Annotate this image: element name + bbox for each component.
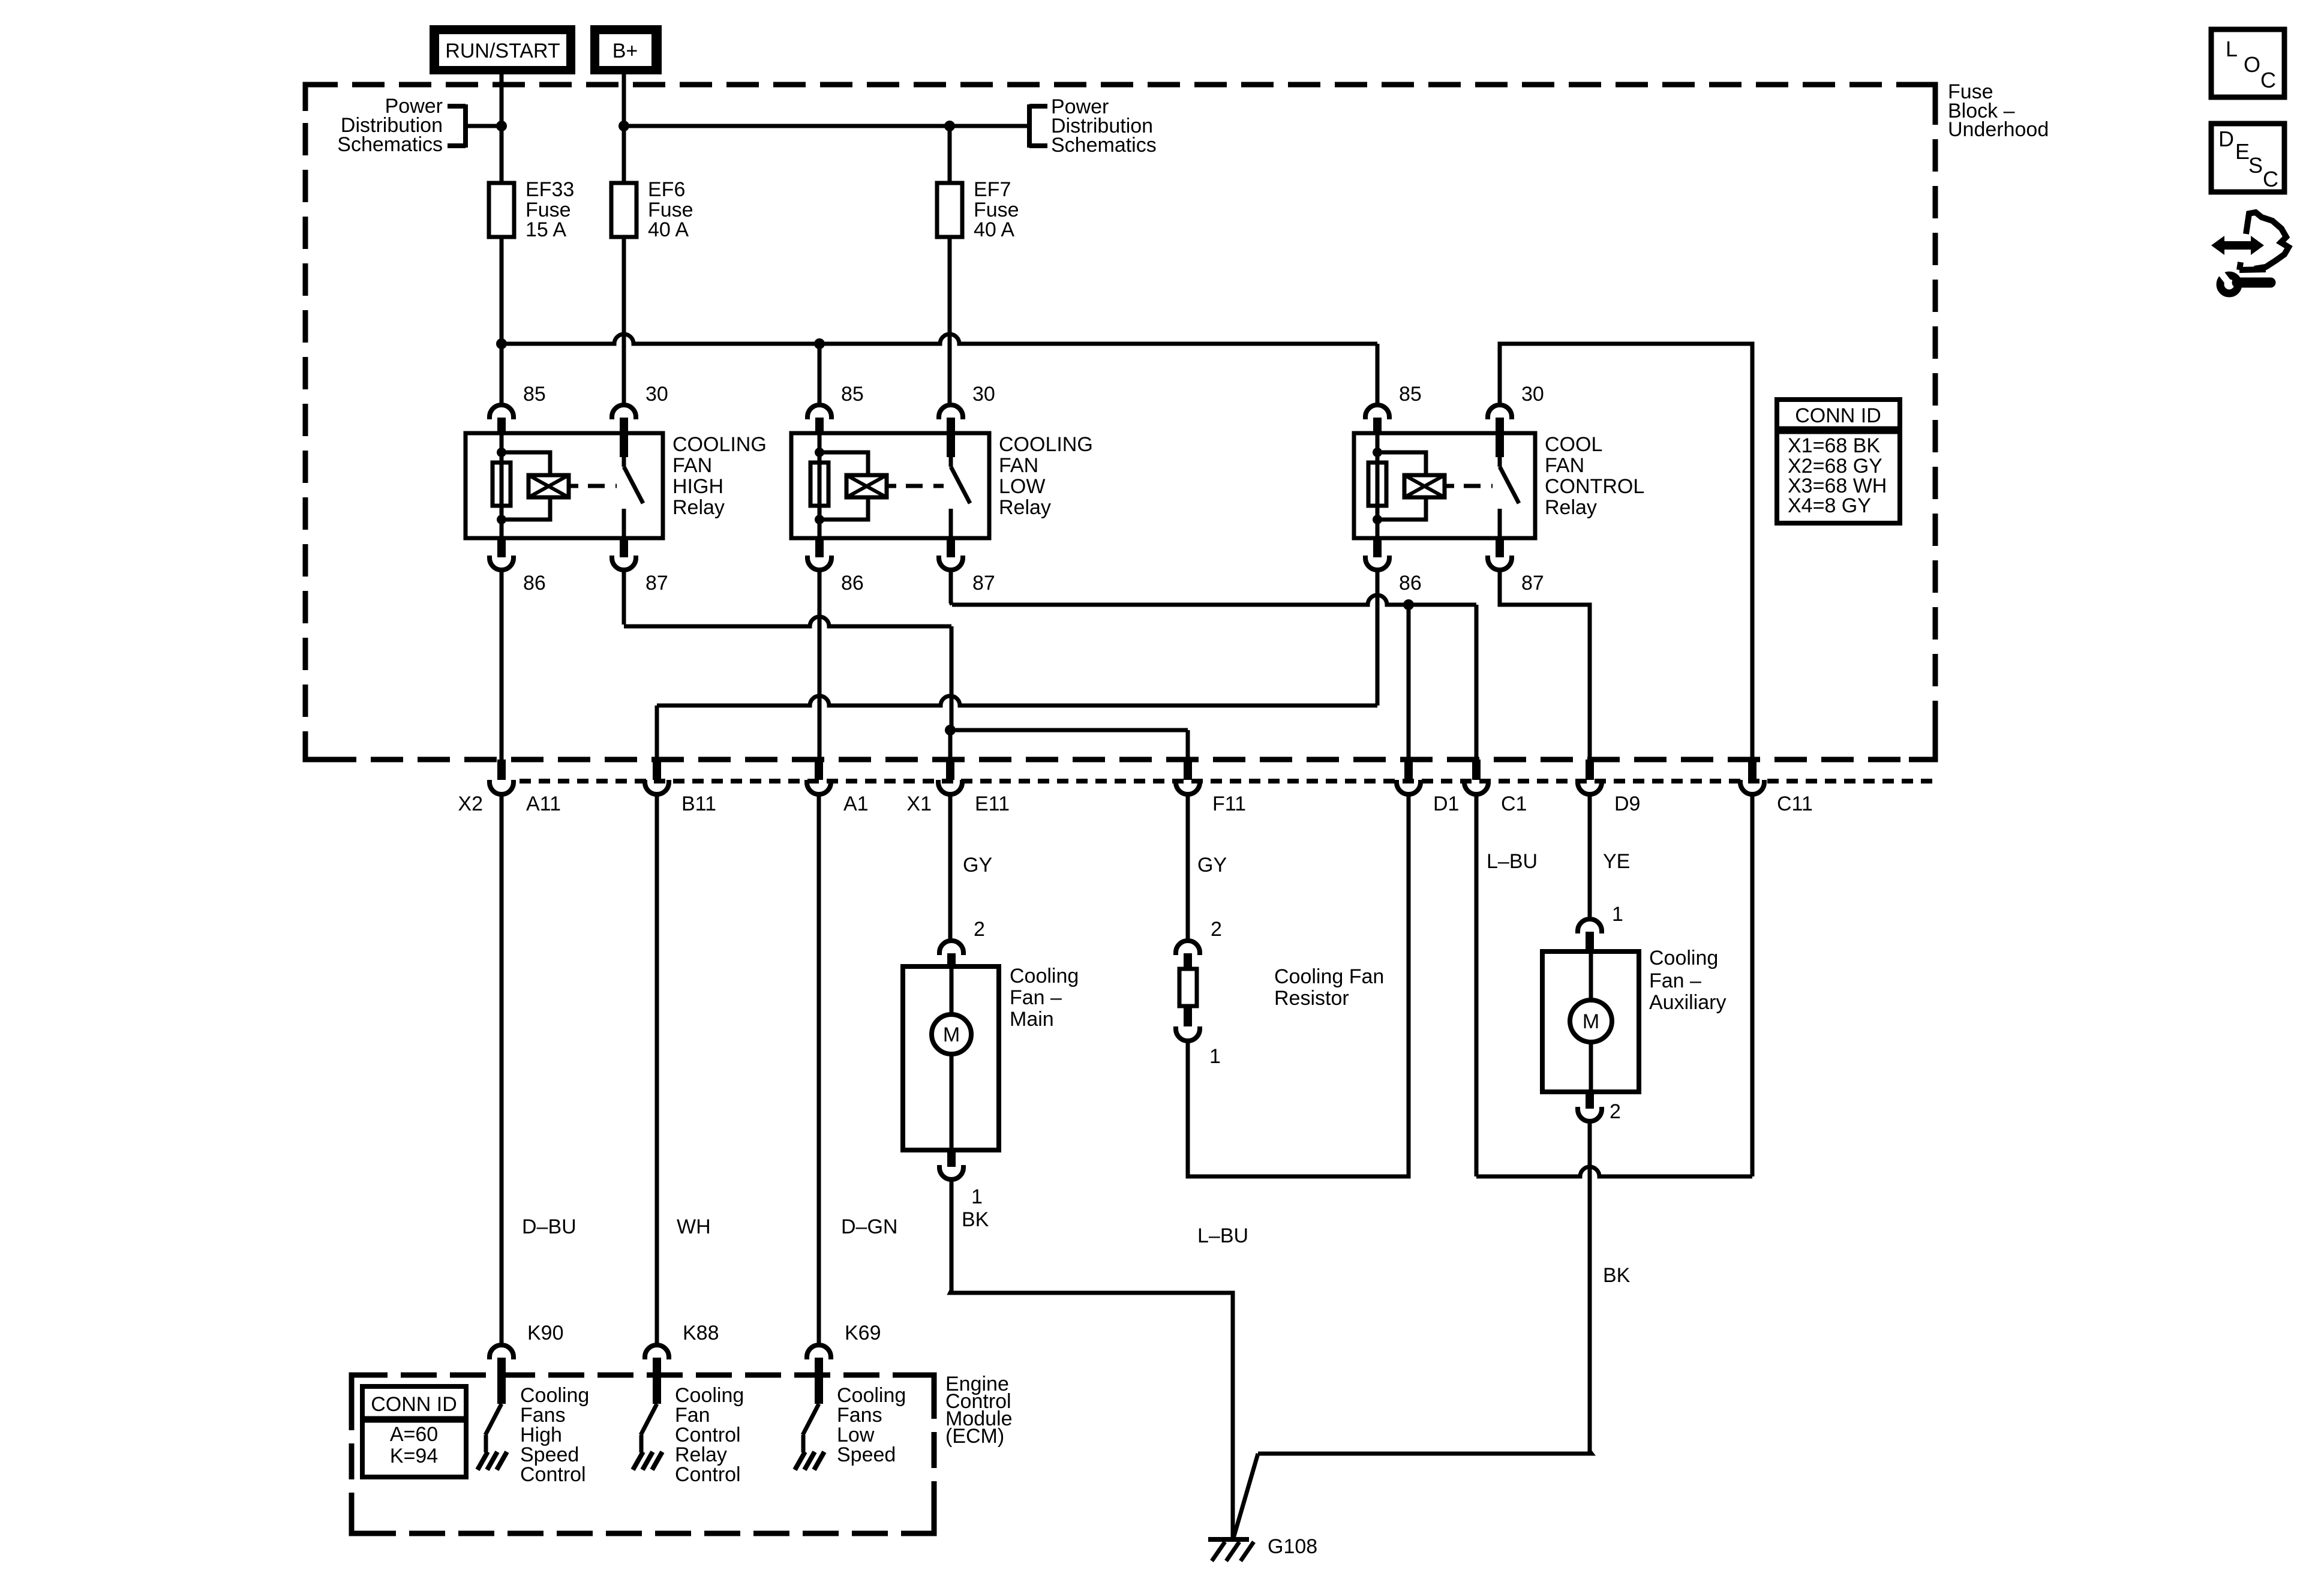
- svg-text:X4=8 GY: X4=8 GY: [1788, 494, 1871, 517]
- relay K2 COOLING FAN LOW - relay coil pin 85 connector: [807, 405, 831, 434]
- label: pin E11: [975, 792, 1010, 815]
- wire: relay K2 pin 86 to connector A1: [818, 571, 822, 760]
- ECM pin K90 connector: [490, 1345, 514, 1404]
- relay K3 COOL FAN CONTROL - label: COOL FAN CONTROL Relay: [1545, 433, 1644, 519]
- relay K2 COOLING FAN LOW - relay coil with resistor: [810, 433, 887, 538]
- cooling fan auxiliary pin 2 connector: [1578, 1092, 1602, 1121]
- fuse EF6: [611, 183, 636, 237]
- wire: resistor pin 1 loop to D1: [1188, 795, 1409, 1176]
- svg-text:K90: K90: [527, 1322, 564, 1344]
- svg-text:BK: BK: [1603, 1264, 1631, 1287]
- relay K3 COOL FAN CONTROL - relay switch pin 30 connector: [1488, 405, 1512, 434]
- icon service info (arrows, outline, wrench): [2211, 212, 2289, 293]
- connector X2/A11 at fuse block boundary: [490, 760, 514, 794]
- relay K1 COOLING FAN HIGH - label: terminal 87: [645, 572, 668, 595]
- cooling fan main pin 2 connector: [939, 941, 963, 968]
- power tag B+: [590, 25, 662, 74]
- svg-text:87: 87: [972, 572, 995, 595]
- label: Cooling Fan Control Relay Control: [675, 1384, 744, 1486]
- svg-text:CONTROL: CONTROL: [1545, 475, 1644, 498]
- svg-text:A1: A1: [843, 792, 869, 815]
- relay K2 COOLING FAN LOW - relay switch arm: [947, 434, 970, 538]
- svg-text:CONN ID: CONN ID: [371, 1393, 457, 1416]
- svg-text:2: 2: [974, 918, 985, 941]
- relay K2 COOLING FAN LOW - relay box: [791, 433, 989, 538]
- label: Fuse Block - Underhood: [1948, 80, 2049, 141]
- label: fan aux pin 2: [1610, 1100, 1621, 1123]
- cooling fan main motor: [903, 966, 999, 1150]
- label: Power Distribution Schematics (left): [337, 95, 443, 156]
- wire: relay K1 pin 87 across to E11 drop: [624, 571, 951, 730]
- svg-text:E11: E11: [975, 792, 1010, 815]
- label: pin D1: [1433, 792, 1459, 815]
- relay K1 COOLING FAN HIGH - relay linkage (dashed): [569, 484, 617, 488]
- svg-text:86: 86: [841, 572, 864, 595]
- relay K1 COOLING FAN HIGH - label: terminal 30: [645, 383, 668, 406]
- wire: F11 to resistor pin 2: [1186, 795, 1190, 940]
- connector D9 at fuse block boundary: [1578, 760, 1602, 794]
- label: pin C11: [1777, 792, 1813, 815]
- svg-text:(ECM): (ECM): [945, 1425, 1004, 1448]
- table: ECM CONN ID: [362, 1386, 466, 1477]
- wire: fan main ground path (BK): [950, 1180, 1233, 1539]
- svg-text:FAN: FAN: [999, 454, 1038, 477]
- relay K2 COOLING FAN LOW - relay coil pin 86 connector: [807, 538, 831, 570]
- relay K3 COOL FAN CONTROL - relay coil pin 85 connector: [1365, 405, 1389, 434]
- svg-text:Speed: Speed: [837, 1443, 896, 1466]
- label: pin F11: [1212, 792, 1246, 815]
- fuse EF7: [937, 183, 962, 237]
- wire: E11 to cooling fan main pin 2: [948, 795, 953, 940]
- wire: relay K3 pin 87 to connector D9: [1500, 571, 1590, 760]
- wire: B+ feed down to fuse EF6: [622, 74, 626, 183]
- wire: relay K1 pin 86 to connector A11: [500, 571, 504, 760]
- svg-text:EF33: EF33: [526, 178, 574, 201]
- label: pin C1: [1501, 792, 1527, 815]
- label: Cooling Fan Resistor: [1274, 965, 1384, 1010]
- svg-text:X1=68 BK: X1=68 BK: [1788, 434, 1880, 457]
- label: wire color D-BU: [522, 1215, 577, 1238]
- label: pin D9: [1614, 792, 1640, 815]
- svg-text:C: C: [2260, 68, 2276, 92]
- relay K1 COOLING FAN HIGH - label: terminal 86: [523, 572, 546, 595]
- relay K1 COOLING FAN HIGH - label: COOLING FAN HIGH Relay: [672, 433, 767, 519]
- relay K1 COOLING FAN HIGH - relay switch pin 87 connector: [612, 538, 636, 570]
- label: pin X2: [458, 792, 483, 815]
- svg-text:Cooling: Cooling: [1010, 965, 1079, 987]
- svg-text:Relay: Relay: [999, 496, 1051, 519]
- svg-text:A11: A11: [526, 792, 561, 815]
- label: wire color L-BU (C1): [1487, 850, 1538, 873]
- label: pin A1: [843, 792, 869, 815]
- svg-text:85: 85: [523, 383, 546, 406]
- label: wire color D-GN: [841, 1215, 897, 1238]
- wire: E11 drop to connector: [948, 730, 953, 760]
- wire: ignition bus to relay K3 pin 85: [502, 334, 1377, 406]
- wire: EF6 output to relay K1 pin 30: [622, 237, 626, 406]
- svg-text:GY: GY: [963, 854, 992, 876]
- label: Cooling Fan - Main: [1010, 965, 1079, 1031]
- label: pin X1: [906, 792, 932, 815]
- wire: relay K2 pin 87 across to C1 drop: [951, 571, 1476, 760]
- svg-text:WH: WH: [677, 1215, 711, 1238]
- wire: relay K3 pin 86 to connector B11: [657, 571, 1377, 760]
- svg-text:G108: G108: [1268, 1535, 1317, 1558]
- relay K2 COOLING FAN LOW - relay switch pin 30 connector: [939, 405, 963, 434]
- label: wire color BK (aux fan): [1603, 1264, 1631, 1287]
- label: pin K88: [683, 1322, 719, 1344]
- wire: A1 to ECM K69 (D-GN): [817, 795, 821, 1344]
- wire: D9 to cooling fan auxiliary pin 1: [1588, 795, 1592, 917]
- relay K1 COOLING FAN HIGH - relay switch arm: [620, 434, 643, 538]
- label: wire color GY (main fan): [963, 854, 992, 876]
- relay K2 COOLING FAN LOW - label: terminal 86: [841, 572, 864, 595]
- connector B11 at fuse block boundary: [645, 760, 669, 794]
- icon LOC: [2211, 29, 2284, 97]
- relay K3 COOL FAN CONTROL - relay box: [1354, 433, 1535, 538]
- label: wire color GY (resistor): [1197, 854, 1227, 876]
- svg-text:HIGH: HIGH: [672, 475, 723, 498]
- ECM driver switch at K88: [633, 1404, 662, 1470]
- svg-text:Cooling: Cooling: [1649, 947, 1718, 969]
- relay K3 COOL FAN CONTROL - label: terminal 30: [1521, 383, 1544, 406]
- svg-text:Fan –: Fan –: [1010, 986, 1062, 1009]
- label: resistor pin 2: [1211, 918, 1222, 941]
- wire: RUN/START feed down to fuse EF33: [500, 74, 504, 183]
- node: tap to fuse EF7: [944, 121, 955, 131]
- ECM driver switch at K69: [795, 1404, 824, 1470]
- relay K2 COOLING FAN LOW - relay linkage (dashed): [887, 484, 944, 488]
- label: G108: [1268, 1535, 1317, 1558]
- cooling fan resistor: [1176, 941, 1200, 1041]
- cooling fan auxiliary pin 1 connector: [1578, 919, 1602, 953]
- svg-text:Relay: Relay: [672, 496, 725, 519]
- svg-text:FAN: FAN: [1545, 454, 1584, 477]
- svg-text:86: 86: [523, 572, 546, 595]
- svg-text:87: 87: [1521, 572, 1544, 595]
- label: Cooling Fan - Auxiliary: [1649, 947, 1726, 1014]
- svg-text:85: 85: [1399, 383, 1422, 406]
- label: wire color YE: [1603, 850, 1630, 873]
- svg-text:LOW: LOW: [999, 475, 1045, 498]
- svg-text:RUN/START: RUN/START: [445, 40, 560, 62]
- label: fan main pin 1: [971, 1185, 983, 1208]
- svg-text:COOL: COOL: [1545, 433, 1602, 456]
- cooling fan auxiliary motor: [1542, 951, 1639, 1092]
- svg-text:L–BU: L–BU: [1487, 850, 1538, 873]
- connector C11 at fuse block boundary: [1740, 760, 1764, 794]
- connector C1 at fuse block boundary: [1464, 760, 1488, 794]
- wire: EF7 output to relay K2 pin 30: [948, 237, 952, 406]
- relay K2 COOLING FAN LOW - label: COOLING FAN LOW Relay: [999, 433, 1093, 519]
- label: EF33 Fuse 15 A: [526, 178, 574, 241]
- label: Power Distribution Schematics (right): [1051, 95, 1157, 157]
- relay K3 COOL FAN CONTROL - relay coil pin 86 connector: [1365, 538, 1389, 570]
- svg-text:K=94: K=94: [390, 1445, 438, 1467]
- ground G108: [1208, 1539, 1254, 1561]
- svg-text:D1: D1: [1433, 792, 1459, 815]
- svg-text:Underhood: Underhood: [1948, 118, 2049, 141]
- label: pin B11: [681, 792, 716, 815]
- ECM driver switch at K90: [478, 1404, 507, 1470]
- wire: A11 to ECM K90 (D-BU): [500, 795, 504, 1344]
- label: wire color BK (main fan): [962, 1208, 989, 1231]
- svg-text:Relay: Relay: [1545, 496, 1597, 519]
- icon DESC: [2211, 124, 2284, 192]
- label: pin K90: [527, 1322, 564, 1344]
- wire: D1 drop to connector: [1407, 605, 1411, 760]
- wire: left power-distribution bracket: [448, 104, 502, 148]
- wire: EF33 output to bus: [500, 237, 504, 344]
- svg-text:X1: X1: [906, 792, 932, 815]
- relay K3 COOL FAN CONTROL - label: terminal 85: [1399, 383, 1422, 406]
- svg-text:CONN ID: CONN ID: [1795, 404, 1881, 427]
- wire: right power-distribution bracket: [1029, 104, 1047, 148]
- svg-text:D: D: [2218, 127, 2234, 151]
- svg-text:40 A: 40 A: [974, 218, 1014, 241]
- svg-text:Schematics: Schematics: [1051, 134, 1157, 157]
- node: D1 branch junction: [1403, 599, 1414, 610]
- label: fan aux pin 1: [1612, 903, 1623, 926]
- relay K1 COOLING FAN HIGH - relay coil with resistor: [493, 433, 569, 538]
- svg-text:L: L: [2226, 37, 2238, 61]
- node: tap on B+ feed: [618, 121, 629, 131]
- svg-text:Resistor: Resistor: [1274, 987, 1349, 1010]
- connector row (dotted line): [520, 779, 1935, 784]
- svg-text:B11: B11: [681, 792, 716, 815]
- svg-text:BK: BK: [962, 1208, 989, 1231]
- svg-text:86: 86: [1399, 572, 1422, 595]
- svg-text:M: M: [1583, 1010, 1599, 1033]
- label: Cooling Fans High Speed Control: [520, 1384, 589, 1486]
- relay K3 COOL FAN CONTROL - relay coil with resistor: [1368, 433, 1445, 538]
- svg-text:EF7: EF7: [974, 178, 1011, 201]
- label: wire color WH: [677, 1215, 711, 1238]
- svg-text:FAN: FAN: [672, 454, 712, 477]
- svg-text:COOLING: COOLING: [672, 433, 767, 456]
- node: bus junction at EF33: [496, 338, 507, 349]
- relay K2 COOLING FAN LOW - label: terminal 30: [972, 383, 995, 406]
- svg-text:M: M: [943, 1023, 960, 1046]
- svg-text:COOLING: COOLING: [999, 433, 1093, 456]
- connector F11 at fuse block boundary: [1176, 760, 1200, 794]
- relay K2 COOLING FAN LOW - relay switch pin 87 connector: [939, 538, 963, 570]
- svg-text:1: 1: [1612, 903, 1623, 926]
- relay K3 COOL FAN CONTROL - label: terminal 86: [1399, 572, 1422, 595]
- svg-text:15 A: 15 A: [526, 218, 566, 241]
- svg-text:L–BU: L–BU: [1197, 1224, 1248, 1247]
- node: tap on RUN/START feed: [496, 121, 507, 131]
- table: fuse block CONN ID: [1777, 400, 1900, 523]
- relay K3 COOL FAN CONTROL - label: terminal 87: [1521, 572, 1544, 595]
- label: fan main pin 2: [974, 918, 985, 941]
- svg-text:O: O: [2244, 52, 2260, 77]
- wire: relay K3 pin 30 to C11 drop: [1500, 344, 1752, 760]
- svg-text:EF6: EF6: [648, 178, 685, 201]
- relay K3 COOL FAN CONTROL - relay switch pin 87 connector: [1488, 538, 1512, 570]
- label: Engine Control Module (ECM): [945, 1373, 1013, 1448]
- svg-text:A=60: A=60: [390, 1423, 438, 1446]
- wire: B+ distribution rail: [624, 124, 1029, 128]
- svg-text:2: 2: [1610, 1100, 1621, 1123]
- svg-text:GY: GY: [1197, 854, 1227, 876]
- connector D1 at fuse block boundary: [1397, 760, 1421, 794]
- wire: C1 to C11 loop: [1476, 795, 1752, 1176]
- wire: bus drop to relay K1 pin 85: [500, 344, 504, 406]
- svg-text:1: 1: [971, 1185, 983, 1208]
- svg-text:30: 30: [1521, 383, 1544, 406]
- svg-text:Control: Control: [675, 1463, 741, 1486]
- wire: fan aux ground path (BK): [1233, 1122, 1592, 1538]
- relay K1 COOLING FAN HIGH - relay switch pin 30 connector: [612, 405, 636, 434]
- label: pin A11: [526, 792, 561, 815]
- wire: bus drop to relay K2 pin 85: [818, 344, 822, 406]
- relay K2 COOLING FAN LOW - label: terminal 85: [841, 383, 864, 406]
- relay K1 COOLING FAN HIGH - relay coil pin 85 connector: [490, 405, 514, 434]
- svg-text:C1: C1: [1501, 792, 1527, 815]
- relay K1 COOLING FAN HIGH - relay coil pin 86 connector: [490, 538, 514, 570]
- svg-text:K88: K88: [683, 1322, 719, 1344]
- svg-text:X2: X2: [458, 792, 483, 815]
- svg-text:D–GN: D–GN: [841, 1215, 897, 1238]
- relay K3 COOL FAN CONTROL - relay switch arm: [1496, 434, 1519, 538]
- svg-text:E: E: [2235, 139, 2250, 164]
- fuse EF33: [489, 183, 514, 237]
- svg-text:Cooling Fan: Cooling Fan: [1274, 965, 1384, 988]
- svg-text:D–BU: D–BU: [522, 1215, 577, 1238]
- svg-text:B+: B+: [612, 40, 638, 62]
- svg-text:Auxiliary: Auxiliary: [1649, 991, 1726, 1014]
- node: bus tap to relay K2 pin 85: [814, 338, 825, 349]
- relay K2 COOLING FAN LOW - label: terminal 87: [972, 572, 995, 595]
- wire: EF7 feed: [948, 126, 952, 183]
- ECM pin K88 connector: [645, 1345, 669, 1404]
- svg-text:K69: K69: [845, 1322, 881, 1344]
- svg-text:Main: Main: [1010, 1008, 1054, 1031]
- svg-text:2: 2: [1211, 918, 1222, 941]
- svg-text:D9: D9: [1614, 792, 1640, 815]
- svg-text:30: 30: [645, 383, 668, 406]
- svg-text:30: 30: [972, 383, 995, 406]
- cooling fan main pin 1 connector: [939, 1150, 963, 1179]
- svg-text:S: S: [2248, 153, 2263, 178]
- ECM pin K69 connector: [807, 1345, 831, 1404]
- svg-text:F11: F11: [1212, 792, 1246, 815]
- label: EF6 Fuse 40 A: [648, 178, 693, 241]
- label: pin K69: [845, 1322, 881, 1344]
- relay K1 COOLING FAN HIGH - relay box: [466, 433, 663, 538]
- connector X1/E11 at fuse block boundary: [938, 760, 962, 794]
- wire: B11 to ECM K88 (WH): [655, 795, 659, 1344]
- relay K3 COOL FAN CONTROL - relay linkage (dashed): [1445, 484, 1493, 488]
- power tag RUN/START: [430, 25, 575, 74]
- svg-text:Control: Control: [520, 1463, 586, 1486]
- label: EF7 Fuse 40 A: [974, 178, 1019, 241]
- ECM enclosure (dashed border): [352, 1375, 934, 1533]
- connector A1 at fuse block boundary: [807, 760, 831, 794]
- label: resistor pin 1: [1209, 1045, 1221, 1068]
- fuse block enclosure (dashed border): [305, 85, 1935, 760]
- svg-text:C11: C11: [1777, 792, 1813, 815]
- svg-text:C: C: [2263, 167, 2278, 191]
- svg-text:Schematics: Schematics: [337, 133, 443, 156]
- svg-text:YE: YE: [1603, 850, 1630, 873]
- svg-text:87: 87: [645, 572, 668, 595]
- svg-text:40 A: 40 A: [648, 218, 689, 241]
- label: wire color L-BU (resistor): [1197, 1224, 1248, 1247]
- svg-text:85: 85: [841, 383, 864, 406]
- svg-text:Fan –: Fan –: [1649, 969, 1701, 992]
- node: E11 branch junction: [945, 725, 956, 736]
- label: Cooling Fans Low Speed: [837, 1384, 906, 1466]
- wire: branch to connector F11: [950, 730, 1188, 760]
- svg-text:1: 1: [1209, 1045, 1221, 1068]
- relay K1 COOLING FAN HIGH - label: terminal 85: [523, 383, 546, 406]
